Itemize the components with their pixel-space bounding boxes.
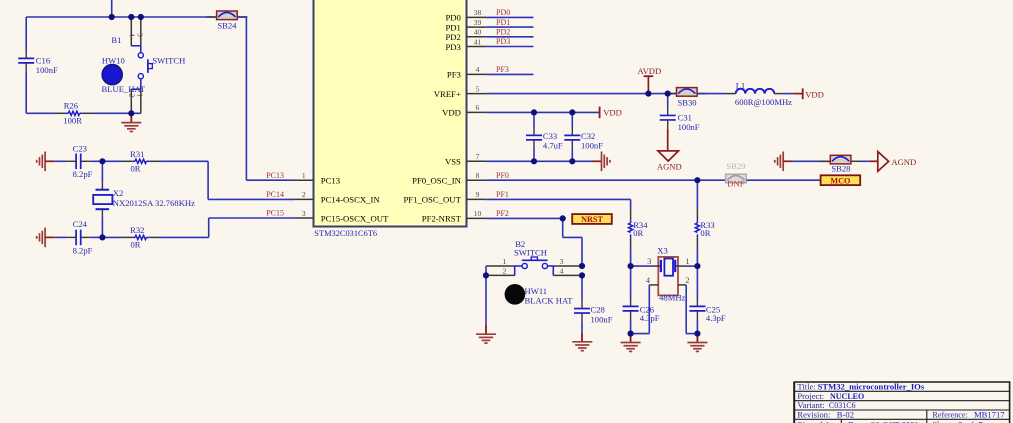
svg-text:PF0: PF0 [496,171,509,180]
svg-text:41: 41 [474,37,482,46]
svg-text:PC13: PC13 [266,171,284,180]
svg-text:PF3: PF3 [496,65,509,74]
svg-text:PF2-NRST: PF2-NRST [422,214,462,224]
svg-text:AGND: AGND [657,161,682,171]
svg-text:Reference:: Reference: [932,410,967,419]
svg-text:PD2: PD2 [496,28,510,37]
svg-text:SB28: SB28 [831,163,850,173]
svg-text:STM32_microcontroller_IOs: STM32_microcontroller_IOs [818,381,925,391]
svg-text:C32: C32 [581,131,595,141]
svg-text:3: 3 [136,33,145,37]
svg-text:4: 4 [128,33,137,37]
svg-text:BLACK HAT: BLACK HAT [525,296,574,306]
svg-text:AVDD: AVDD [638,66,662,76]
svg-text:3: 3 [647,257,651,266]
svg-text:PF1_OSC_OUT: PF1_OSC_OUT [403,195,461,205]
svg-text:PD2: PD2 [445,32,460,42]
svg-text:0R: 0R [700,228,710,238]
svg-text:600R@100MHz: 600R@100MHz [735,97,792,107]
svg-text:PF3: PF3 [447,70,461,80]
svg-text:100nF: 100nF [36,65,58,75]
svg-text:39: 39 [474,18,482,27]
svg-text:PC15: PC15 [266,209,284,218]
svg-text:4.3pF: 4.3pF [706,313,726,323]
svg-text:4: 4 [560,267,564,276]
svg-text:VDD: VDD [805,89,824,99]
svg-text:Title:: Title: [797,381,815,391]
svg-text:8: 8 [476,171,480,180]
svg-text:MB1717: MB1717 [974,409,1005,419]
svg-text:0R: 0R [633,228,643,238]
svg-text:B-02: B-02 [837,409,854,419]
svg-text:C16: C16 [36,55,51,65]
svg-text:10: 10 [474,209,482,218]
svg-text:NX2012SA 32.768KHz: NX2012SA 32.768KHz [113,198,195,208]
svg-text:Revision:: Revision: [797,409,830,419]
svg-text:R26: R26 [64,101,79,111]
svg-text:NUCLEO: NUCLEO [830,392,864,401]
svg-text:STM32C031C6T6: STM32C031C6T6 [314,229,377,238]
svg-text:X2: X2 [113,188,124,198]
svg-text:PF2: PF2 [496,209,509,218]
svg-text:C33: C33 [543,131,557,141]
svg-text:C23: C23 [73,144,87,154]
svg-text:R32: R32 [130,225,144,235]
svg-text:C28: C28 [591,305,605,315]
svg-text:X3: X3 [657,246,668,256]
svg-text:HW10: HW10 [102,55,125,65]
svg-text:C24: C24 [73,219,88,229]
svg-text:DNF: DNF [727,179,744,189]
svg-text:48MHz: 48MHz [659,293,685,303]
svg-text:1: 1 [302,171,306,180]
svg-text:8.2pF: 8.2pF [73,169,93,179]
svg-text:100nF: 100nF [678,122,700,132]
svg-text:Date: 26-OCT-2021: Date: 26-OCT-2021 [848,419,919,423]
svg-text:VSS: VSS [445,157,461,167]
svg-text:4.7uF: 4.7uF [543,140,563,150]
svg-text:VDD: VDD [442,108,461,118]
svg-text:PD1: PD1 [496,18,510,27]
svg-text:PD1: PD1 [445,22,460,32]
svg-text:0R: 0R [131,240,141,250]
svg-text:3: 3 [302,209,306,218]
svg-text:L1: L1 [736,80,746,90]
svg-text:PD0: PD0 [496,8,510,17]
svg-text:2: 2 [503,267,507,276]
svg-text:PC15-OSCX_OUT: PC15-OSCX_OUT [321,213,389,223]
svg-text:6: 6 [476,103,480,112]
svg-text:Sheet: 3 of 7: Sheet: 3 of 7 [932,419,983,423]
svg-text:3: 3 [560,257,564,266]
svg-text:2: 2 [302,190,306,199]
svg-text:9: 9 [476,190,480,199]
svg-text:PC14-OSCX_IN: PC14-OSCX_IN [321,195,381,205]
svg-text:40: 40 [474,28,482,37]
svg-text:PC13: PC13 [321,176,340,186]
svg-text:38: 38 [474,8,482,17]
svg-text:SWITCH: SWITCH [514,248,547,258]
svg-text:5: 5 [476,84,480,93]
svg-text:NRST: NRST [581,215,603,224]
svg-text:VDD: VDD [603,107,622,117]
svg-text:PF0_OSC_IN: PF0_OSC_IN [412,176,461,186]
svg-text:2: 2 [685,276,689,285]
svg-text:SB30: SB30 [677,98,696,108]
svg-text:1: 1 [685,257,689,266]
svg-text:SB29: SB29 [726,161,745,171]
svg-text:4: 4 [476,65,480,74]
svg-text:100nF: 100nF [591,314,613,324]
svg-text:C31: C31 [678,113,692,123]
svg-text:PD0: PD0 [445,13,461,23]
svg-text:7: 7 [476,152,480,161]
svg-text:R31: R31 [130,149,144,159]
svg-text:AGND: AGND [891,157,916,167]
svg-text:0R: 0R [131,164,141,174]
svg-text:VREF+: VREF+ [434,89,461,99]
svg-text:8.2pF: 8.2pF [73,245,93,255]
svg-text:B1: B1 [111,35,121,45]
svg-text:MCO: MCO [830,176,850,185]
svg-text:100R: 100R [63,116,82,126]
svg-text:PD3: PD3 [496,37,510,46]
svg-text:1: 1 [503,257,507,266]
svg-text:100nF: 100nF [581,140,603,150]
svg-text:Size: A4: Size: A4 [797,419,829,423]
svg-text:SWITCH: SWITCH [152,55,185,65]
svg-text:BLUE_HAT: BLUE_HAT [102,84,146,94]
svg-text:SB24: SB24 [217,20,237,30]
svg-text:PF1: PF1 [496,190,509,199]
svg-text:PC14: PC14 [266,190,284,199]
svg-text:PD3: PD3 [445,42,460,52]
